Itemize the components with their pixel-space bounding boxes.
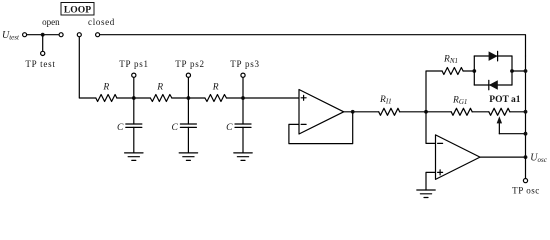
- node diode pair left: [472, 69, 476, 73]
- resistor R (stage 2): [150, 95, 172, 102]
- terminal switch pole: [77, 33, 81, 37]
- test point TP ps1: [132, 73, 136, 77]
- node junction at switch input: [41, 33, 45, 37]
- test point TP test: [41, 51, 45, 55]
- wire U_test lead: [27, 34, 59, 36]
- wire closed contact to feedback rail: [100, 35, 526, 56]
- wire RN1 to diode pair: [463, 70, 474, 72]
- node rail at POT row: [524, 110, 528, 114]
- wire feedback rail upper: [525, 56, 527, 157]
- node A junction: [424, 110, 428, 114]
- node U1 output junction: [351, 110, 355, 114]
- test point TP ps3: [241, 73, 245, 77]
- svg-text:TP test: TP test: [25, 59, 55, 69]
- wire RG1 to POT a1: [472, 111, 489, 113]
- wire diode pair frame: [473, 56, 475, 85]
- wire RI1 to node A: [400, 111, 426, 113]
- wire switch pole down to ladder: [79, 37, 96, 98]
- svg-text:open: open: [42, 17, 60, 27]
- label LOOP box: [61, 3, 94, 16]
- potentiometer POT a1 wiper arrow: [498, 122, 500, 134]
- wire node A to RG1: [426, 111, 451, 113]
- test point TP osc: [523, 179, 527, 183]
- resistor R (stage 1): [96, 95, 117, 102]
- terminal U_test: [23, 33, 27, 37]
- capacitor C (stage 2) plates: [180, 124, 196, 127]
- resistor RG1: [451, 108, 472, 115]
- potentiometer POT a1 body: [489, 108, 510, 115]
- node TP ps3 junction: [241, 96, 245, 100]
- resistor RN1: [442, 68, 463, 75]
- resistor R (stage 3): [205, 95, 227, 102]
- svg-text:TP ps3: TP ps3: [230, 59, 259, 69]
- node U_osc output: [524, 155, 528, 159]
- wire TP osc stub: [525, 157, 527, 178]
- wire TP ps2 stub: [187, 77, 189, 98]
- diode D2 (bottom, anode right): [489, 80, 498, 90]
- svg-text:RN1: RN1: [443, 54, 458, 65]
- wire U1 feedback loop: [289, 112, 353, 144]
- wire R2 to node ps2: [172, 97, 205, 99]
- ground (stage 1): [125, 153, 143, 161]
- svg-text:R: R: [102, 82, 109, 92]
- wire TP test stub: [42, 35, 44, 52]
- terminal closed contact: [96, 33, 100, 37]
- capacitor C (stage 2) lead: [187, 98, 189, 124]
- node rail at wiper row: [524, 132, 528, 136]
- wire TP ps1 stub: [133, 77, 135, 98]
- test point TP ps2: [186, 73, 190, 77]
- op-amp U2 minus pin mark: [438, 142, 443, 144]
- svg-text:Utest: Utest: [2, 30, 20, 42]
- wire POT a1 to rail: [510, 111, 526, 113]
- wire TP ps3 stub: [242, 77, 244, 98]
- svg-text:C: C: [117, 123, 124, 133]
- svg-text:closed: closed: [88, 17, 115, 27]
- resistor RI1: [379, 108, 400, 115]
- wire node A down to U2 inverting input: [426, 112, 436, 144]
- svg-text:C: C: [172, 123, 179, 133]
- svg-text:TP ps1: TP ps1: [119, 59, 148, 69]
- op-amp U1 plus pin mark: [301, 97, 306, 99]
- svg-text:LOOP: LOOP: [64, 4, 91, 15]
- wire R1 to node ps1: [117, 97, 151, 99]
- ground U2: [417, 190, 435, 198]
- op-amp U2 gain stage: [436, 135, 481, 180]
- capacitor C (stage 3) plates: [235, 124, 251, 127]
- node TP ps1 junction: [132, 96, 136, 100]
- wire U2 non-inverting input to ground: [426, 172, 436, 190]
- svg-text:RI1: RI1: [379, 95, 392, 106]
- svg-text:TP ps2: TP ps2: [175, 59, 204, 69]
- svg-text:R: R: [156, 82, 163, 92]
- wire R3 to node ps3 and op-amp input: [226, 97, 299, 99]
- op-amp U1 buffer: [299, 90, 344, 135]
- diode D1 (top, anode left): [489, 51, 498, 61]
- terminal open contact: [59, 33, 63, 37]
- capacitor C (stage 1) lead: [133, 98, 135, 124]
- op-amp U1 minus pin mark: [301, 123, 306, 125]
- wire C3 to ground: [242, 127, 244, 152]
- node rail at diode row: [524, 69, 528, 73]
- wire C1 to ground: [133, 127, 135, 152]
- wire U1 output: [344, 111, 379, 113]
- wire diode pair to rail: [512, 70, 526, 72]
- op-amp U2 plus pin mark: [438, 171, 443, 173]
- wire U2 output to rail: [480, 156, 526, 158]
- capacitor C (stage 3) lead: [242, 98, 244, 124]
- svg-text:Uosc: Uosc: [530, 152, 547, 164]
- wire wiper to rail: [499, 133, 525, 135]
- svg-text:R: R: [212, 82, 219, 92]
- capacitor C (stage 1) plates: [126, 124, 142, 127]
- svg-text:POT a1: POT a1: [489, 95, 520, 105]
- node diode pair right: [510, 69, 514, 73]
- node TP ps2 junction: [187, 96, 191, 100]
- wire C2 to ground: [187, 127, 189, 152]
- svg-text:RG1: RG1: [452, 95, 467, 106]
- wire node A up to RN1: [426, 71, 442, 112]
- svg-text:TP osc: TP osc: [512, 186, 540, 196]
- ground (stage 3): [234, 153, 252, 161]
- ground (stage 2): [179, 153, 197, 161]
- svg-text:C: C: [226, 123, 233, 133]
